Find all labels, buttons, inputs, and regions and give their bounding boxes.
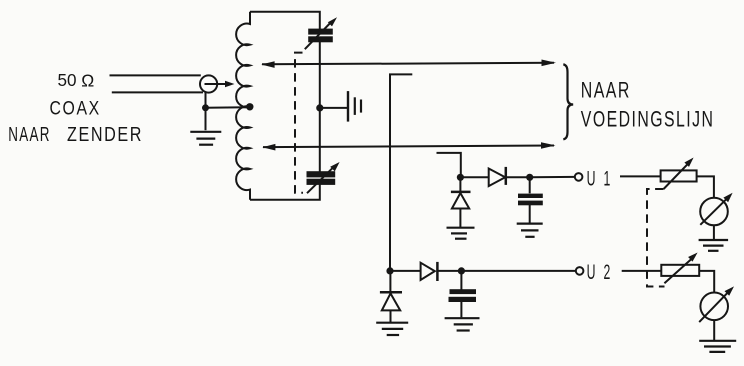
wire: sense line from lower feedline down to U1 branch xyxy=(437,153,461,177)
wire down to ground G1 xyxy=(205,108,207,130)
resistor R2 (variable) xyxy=(661,253,699,284)
node: U2 branch junction A xyxy=(386,267,393,274)
connector J1 (coax input circle) xyxy=(200,75,217,92)
wire junction to coil tap xyxy=(206,106,249,109)
svg-text:U 1: U 1 xyxy=(587,167,613,190)
wire to U1 terminal xyxy=(530,176,575,178)
node: U1 branch junction B xyxy=(526,174,533,181)
node: junction dot C-column / ground stub xyxy=(316,104,323,111)
wire: dashed gang link C1-C2 xyxy=(295,53,303,193)
meter M2 xyxy=(699,286,734,322)
arrow J1 to coil xyxy=(205,81,235,87)
diode D4 (series, U2) xyxy=(390,262,461,281)
ground G8 (under M2) xyxy=(699,341,736,352)
ground G6 (under C4) xyxy=(445,318,480,330)
wire C1 to C2 (center column) xyxy=(319,41,321,172)
svg-text:U 2: U 2 xyxy=(587,261,613,284)
wire U1 to R1 xyxy=(620,175,661,177)
capacitor C3 (smoothing, U1) xyxy=(518,177,543,223)
wire R2 to meter M2 xyxy=(699,271,714,292)
ground G7 (under M1) xyxy=(699,240,729,251)
wire to ground (center) xyxy=(320,107,348,109)
svg-text:VOEDINGSLIJN: VOEDINGSLIJN xyxy=(581,107,715,132)
ground G3 (under D1) xyxy=(447,228,475,239)
brace (to feed line) xyxy=(563,64,573,139)
capacitor C2 (variable, bottom) xyxy=(307,162,340,193)
wire coax inner (top) xyxy=(110,74,201,76)
svg-text:ZENDER: ZENDER xyxy=(67,123,143,146)
terminal U1 (circle) xyxy=(575,173,583,181)
wire coax shield (bottom) xyxy=(112,91,203,93)
meter M1 xyxy=(700,193,732,226)
wire: dashed gang link R1-R2 xyxy=(647,189,665,287)
wire from coil top to C1 xyxy=(250,12,320,30)
svg-text:COAX: COAX xyxy=(50,98,101,120)
ground G5 (under D3) xyxy=(376,323,408,335)
inductor L1 (tank coil, 8 turns) xyxy=(236,12,250,200)
wire: lower feedline (double arrow) xyxy=(262,142,555,150)
diode D3 (shunt, U2) xyxy=(380,271,402,322)
wire: upper feedline (double arrow) xyxy=(261,60,556,68)
capacitor C4 (smoothing, U2) xyxy=(449,271,477,318)
ground G4 (under C3) xyxy=(517,224,543,237)
wire R1 to meter M1 xyxy=(697,176,714,197)
node: coil tap dot xyxy=(246,103,253,110)
svg-text:Ω: Ω xyxy=(81,70,94,90)
wire M1 to ground xyxy=(713,226,715,240)
node: U1 branch junction A xyxy=(457,174,464,181)
svg-text:50: 50 xyxy=(58,70,77,90)
label NAAR ZENDER xyxy=(8,123,143,146)
label 50 ohm xyxy=(58,70,95,90)
svg-text:NAAR: NAAR xyxy=(581,78,631,103)
wire U2 to R2 xyxy=(622,270,662,272)
capacitor C1 (variable, top) xyxy=(305,17,337,49)
wire: sense line from upper feedline down to U2 branch xyxy=(390,74,412,271)
wire J1 down to ground node xyxy=(205,92,207,108)
terminal U2 (circle) xyxy=(576,267,584,275)
wire M2 to ground xyxy=(713,320,715,340)
node: input ground junction xyxy=(202,104,209,111)
wire C2 bottom to coil bottom xyxy=(250,183,320,200)
wire to U2 terminal xyxy=(461,270,575,272)
diode D1 (shunt, U1) xyxy=(451,177,471,227)
diode D2 (series, U1) xyxy=(460,167,529,186)
svg-text:NAAR: NAAR xyxy=(8,123,51,146)
node: U2 branch junction B xyxy=(458,267,465,274)
ground (center, sideways) xyxy=(348,91,361,122)
resistor R1 (variable) xyxy=(661,158,697,190)
ground G1 (input) xyxy=(190,132,221,145)
